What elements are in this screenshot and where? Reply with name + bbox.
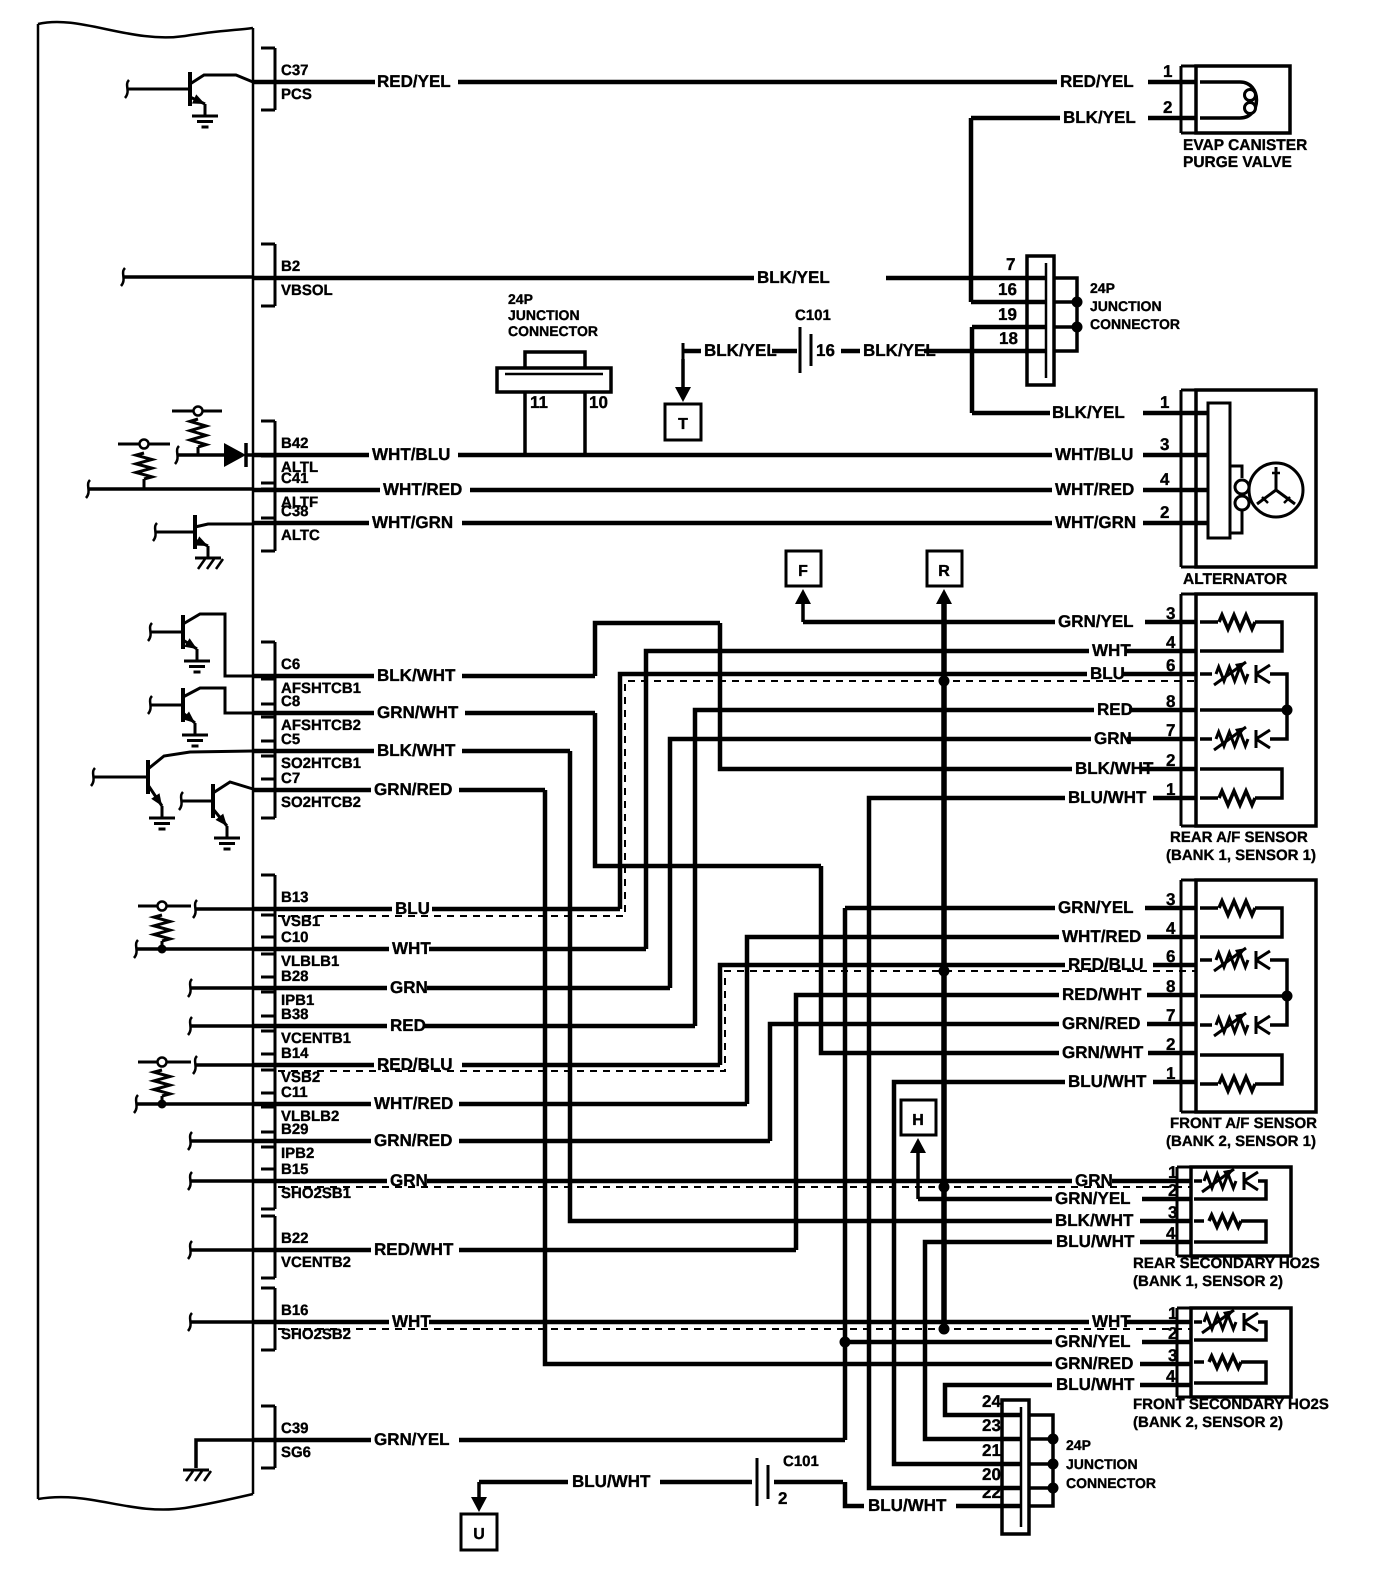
svg-text:CONNECTOR: CONNECTOR [1066,1475,1156,1491]
wire front A/F pin 3 GRN/YEL [845,906,1055,911]
svg-text:24P: 24P [508,291,533,307]
svg-text:3: 3 [1166,604,1175,623]
svg-text:4: 4 [1166,1367,1176,1386]
alternator body [1196,390,1316,567]
svg-text:WHT/GRN: WHT/GRN [1055,513,1136,532]
svg-text:C37: C37 [281,62,309,79]
transistor Q3 (AFSHTCB1 driver) [181,615,185,649]
svg-text:WHT: WHT [1092,641,1131,660]
svg-text:GRN: GRN [390,978,428,997]
ECM pin C39/SG6 bracket and labels [261,1405,275,1408]
wire net C39 GRN/YEL riser [253,1438,371,1443]
ECM pin C41/ALTF bracket and labels [261,455,275,458]
svg-text:U: U [473,1526,485,1543]
svg-text:(BANK 1, SENSOR 1): (BANK 1, SENSOR 1) [1166,847,1316,864]
svg-text:19: 19 [998,305,1017,324]
svg-text:BLU: BLU [1090,664,1125,683]
svg-text:GRN/YEL: GRN/YEL [374,1430,450,1449]
svg-text:GRN/RED: GRN/RED [374,780,452,799]
svg-text:SO2HTCB2: SO2HTCB2 [281,794,361,811]
rear A/F sensor (bank 1 sensor 1) [1180,594,1183,826]
svg-text:REAR SECONDARY HO2S: REAR SECONDARY HO2S [1133,1255,1320,1272]
wire net B16 WHT shielded to front secondary HO2S pin 1 [253,1320,389,1325]
resistor R1 with terminal (ALTL pull-up) [172,410,193,413]
svg-text:6: 6 [1166,656,1175,675]
ECM pin C37/PCS bracket and labels [261,47,275,50]
ECM body torn-paper outline [38,24,253,1499]
ECM pin B16/SHO2SB2 bracket and labels [261,1287,275,1290]
wire front secondary HO2S pin 2 GRN/YEL [840,1337,851,1348]
wire net C11 WHT/RED to front A/F pin 4 [253,1102,371,1107]
svg-text:RED: RED [390,1016,426,1035]
wire EVAP pin 2 BLK/YEL [971,116,1060,121]
connector C101 (pin 2) [756,1458,759,1506]
alternator stator symbol [1249,463,1303,517]
ground at SG6 [196,1440,253,1468]
svg-text:WHT: WHT [392,939,431,958]
wire net B13 BLU shielded to rear A/F pin 6 [253,907,392,912]
alternator field coil [1230,466,1242,478]
svg-text:CONNECTOR: CONNECTOR [1090,316,1180,332]
svg-text:FRONT A/F SENSOR: FRONT A/F SENSOR [1170,1115,1317,1132]
svg-text:VCENTB2: VCENTB2 [281,1254,351,1271]
svg-text:C5: C5 [281,731,300,748]
svg-text:2: 2 [778,1489,787,1508]
svg-text:8: 8 [1166,692,1175,711]
svg-text:C39: C39 [281,1420,309,1437]
wire C37 RED/YEL to EVAP pin 1 [253,80,375,85]
svg-text:BLK/YEL: BLK/YEL [1052,403,1125,422]
svg-text:1: 1 [1163,62,1172,81]
shield dashed for RED/BLU wire [278,971,1196,1071]
wire net B22 RED/WHT to front A/F pin 8 and F [253,1248,371,1253]
svg-text:20: 20 [982,1465,1001,1484]
shield dashed for GRN wire [278,1186,1191,1188]
transistor Q4 (AFSHTCB2 driver) [181,688,185,722]
front secondary HO2S (bank 2 sensor 2) [1176,1308,1179,1397]
wire net C10 WHT to rear A/F pin 4 [253,947,389,952]
svg-text:ALTC: ALTC [281,527,320,544]
wire net B15 GRN shielded to rear secondary HO2S pin 1 [253,1179,387,1184]
svg-text:4: 4 [1166,1224,1176,1243]
alternator connector bracket [1180,390,1183,567]
shield dashed for BLU wire [278,681,1196,916]
wire net C5 BLK/WHT to rear secondary HO2S pin 3 [253,749,374,754]
ECM pin C10/VLBLB1 bracket and labels [261,914,275,917]
svg-text:BLU/WHT: BLU/WHT [1068,788,1147,807]
wire net B14 RED/BLU shielded to front A/F pin 6 [253,1063,374,1068]
svg-text:C101: C101 [783,1453,819,1470]
EVAP canister purge valve body [1196,66,1290,133]
svg-text:PURGE VALVE: PURGE VALVE [1183,154,1292,171]
svg-text:RED/WHT: RED/WHT [374,1240,454,1259]
wire B22 lead [190,1248,253,1252]
svg-text:RED/WHT: RED/WHT [1062,985,1142,1004]
svg-text:C10: C10 [281,929,309,946]
svg-text:21: 21 [982,1441,1001,1460]
junction connector 24P (pins 11,10) body [497,368,611,392]
svg-text:GRN/YEL: GRN/YEL [1055,1332,1131,1351]
junction connector 24P bottom body [1002,1400,1029,1534]
svg-text:R: R [938,563,950,580]
svg-text:BLU/WHT: BLU/WHT [572,1472,651,1491]
wire B14 lead [195,1063,253,1067]
svg-text:(BANK 2, SENSOR 1): (BANK 2, SENSOR 1) [1166,1133,1316,1150]
svg-text:WHT/BLU: WHT/BLU [372,445,450,464]
wire rear A/F pin 3 GRN/YEL from F [803,620,1055,625]
F box reference with arrow [786,551,821,586]
svg-text:BLU/WHT: BLU/WHT [1068,1072,1147,1091]
svg-text:EVAP CANISTER: EVAP CANISTER [1183,137,1307,154]
svg-text:7: 7 [1006,255,1015,274]
svg-text:(BANK 1, SENSOR 2): (BANK 1, SENSOR 2) [1133,1273,1283,1290]
svg-text:GRN/RED: GRN/RED [1062,1014,1140,1033]
svg-text:RED/YEL: RED/YEL [1060,72,1134,91]
wire net B28 GRN to rear A/F pin 7 [253,986,387,991]
svg-text:24P: 24P [1090,280,1115,296]
resistor R2 with terminal (ALTF pull-up) [118,443,139,446]
svg-text:C38: C38 [281,503,309,520]
wire rear secondary HO2S pin 4 BLU/WHT to junction pin 23 [925,1242,1052,1439]
wire net C8 GRN/WHT to front A/F pin 2 [253,711,374,716]
svg-text:C11: C11 [281,1084,308,1101]
front A/F sensor (bank 2 sensor 1) [1180,880,1183,1112]
svg-text:10: 10 [589,393,608,412]
svg-text:2: 2 [1166,1035,1175,1054]
wire BLK/YEL through C101 to junction pin 18 [682,343,685,359]
svg-text:6: 6 [1166,947,1175,966]
svg-text:GRN: GRN [1094,729,1132,748]
svg-text:JUNCTION: JUNCTION [508,307,580,323]
svg-text:C101: C101 [795,307,831,324]
svg-text:3: 3 [1160,435,1169,454]
svg-text:1: 1 [1166,780,1175,799]
svg-text:4: 4 [1166,919,1176,938]
svg-text:4: 4 [1160,470,1170,489]
svg-text:BLU/WHT: BLU/WHT [868,1496,947,1515]
svg-text:WHT/RED: WHT/RED [374,1094,453,1113]
ECM pin B15/SHO2SB1 bracket and labels [261,1146,275,1149]
wire net B38 RED to rear A/F pin 8 [253,1024,387,1029]
ECM pin C38/ALTC bracket and labels [261,488,275,491]
svg-text:B42: B42 [281,435,309,452]
svg-text:BLK/YEL: BLK/YEL [863,341,936,360]
svg-text:RED: RED [1097,700,1133,719]
svg-text:C8: C8 [281,693,300,710]
svg-text:8: 8 [1166,977,1175,996]
ECM pin B42/ALTL bracket and labels [261,420,275,423]
wire rear A/F pin 1 BLU/WHT to junction pin 20 [869,798,1065,1488]
svg-text:VSB1: VSB1 [281,913,320,930]
svg-text:B16: B16 [281,1302,309,1319]
svg-text:B29: B29 [281,1121,309,1138]
alternator internal connector strip [1208,403,1230,538]
svg-text:BLK/YEL: BLK/YEL [704,341,777,360]
svg-text:C7: C7 [281,770,300,787]
svg-text:2: 2 [1160,503,1169,522]
svg-text:7: 7 [1166,721,1175,740]
svg-text:GRN/WHT: GRN/WHT [1062,1043,1144,1062]
svg-text:F: F [798,563,808,580]
svg-text:1: 1 [1160,393,1169,412]
wire B28 lead [190,986,253,990]
svg-text:PCS: PCS [281,86,312,103]
transistor Q2 (ALTC) [193,515,197,549]
wire EVAP BLK/YEL vertical to junction pin 16 [969,118,974,302]
wire C41 WHT/RED to alternator pin 4 [253,488,380,493]
svg-text:B28: B28 [281,968,309,985]
svg-text:WHT/RED: WHT/RED [383,480,462,499]
wire junction pin 19 BLK/YEL to alternator pin 1 [972,325,1027,330]
wire net C6 BLK/WHT to rear A/F pin 2 [253,674,374,679]
svg-text:FRONT SECONDARY HO2S: FRONT SECONDARY HO2S [1133,1396,1329,1413]
shield dashed for WHT wire [278,1328,1191,1330]
svg-text:B38: B38 [281,1006,309,1023]
ECM pin B14/VSB2 bracket and labels [261,1030,275,1033]
svg-text:RED/YEL: RED/YEL [377,72,451,91]
svg-text:JUNCTION: JUNCTION [1090,298,1162,314]
svg-text:23: 23 [982,1416,1001,1435]
svg-text:B15: B15 [281,1161,309,1178]
svg-text:B2: B2 [281,258,300,275]
wire C38 WHT/GRN to alternator pin 2 [253,521,369,526]
ECM pin B22/VCENTB2 bracket and labels [261,1215,275,1218]
svg-text:SG6: SG6 [281,1444,311,1461]
svg-text:16: 16 [998,280,1017,299]
svg-text:2: 2 [1163,98,1172,117]
ECM pin C6/AFSHTCB1 bracket and labels [261,641,275,644]
svg-text:1: 1 [1166,1064,1175,1083]
svg-text:4: 4 [1166,633,1176,652]
wire front secondary HO2S pin 4 BLU/WHT to junction pin 24 [945,1385,1052,1415]
svg-text:H: H [912,1112,924,1129]
svg-text:GRN: GRN [1075,1171,1113,1190]
svg-text:WHT/RED: WHT/RED [1062,927,1141,946]
ECM pin B13/VSB1 bracket and labels [261,874,275,877]
svg-text:WHT/BLU: WHT/BLU [1055,445,1133,464]
wire front A/F pin 1 BLU/WHT to junction pin 21 [894,1082,1065,1464]
resistor R4 with terminal (VSB2) [138,1061,191,1064]
wire B2 BLK/YEL to junction pin 7 [253,276,754,281]
svg-text:24P: 24P [1066,1437,1091,1453]
ECM pin C5/SO2HTCB1 bracket and labels [261,716,275,719]
svg-text:11: 11 [530,393,548,412]
svg-text:(BANK 2, SENSOR 2): (BANK 2, SENSOR 2) [1133,1414,1283,1431]
H box reference with arrow [901,1100,936,1135]
ECM pin C7/SO2HTCB2 bracket and labels [261,755,275,758]
wire B2 lead [123,275,253,279]
connector C101 (engine harness, pin 16) [799,327,802,373]
wire B38 lead [190,1024,253,1028]
svg-text:BLK/WHT: BLK/WHT [1075,759,1154,778]
svg-text:24: 24 [982,1392,1001,1411]
svg-text:JUNCTION: JUNCTION [1066,1456,1138,1472]
svg-text:WHT/RED: WHT/RED [1055,480,1134,499]
EVAP canister purge valve connector bracket [1180,66,1183,133]
svg-text:BLU/WHT: BLU/WHT [1056,1375,1135,1394]
wire C11 lead [136,1102,253,1106]
wire C41 lead [88,487,253,491]
ECM pin B2/VBSOL bracket and labels [261,243,275,246]
svg-text:T: T [678,416,688,433]
junction 24P top-right bus [1054,278,1077,351]
ECM pin C8/AFSHTCB2 bracket and labels [261,678,275,681]
ECM pin B29/IPB2 bracket and labels [261,1106,275,1109]
wire net B29 GRN/RED to front A/F pin 7 [253,1139,371,1144]
wire C10 lead [136,947,253,951]
svg-text:GRN/YEL: GRN/YEL [1055,1189,1131,1208]
svg-text:WHT/GRN: WHT/GRN [372,513,453,532]
wire B29 lead [190,1139,253,1143]
svg-text:BLK/WHT: BLK/WHT [1055,1211,1134,1230]
svg-text:GRN/YEL: GRN/YEL [1058,898,1134,917]
svg-text:C41: C41 [281,470,309,487]
svg-text:C6: C6 [281,656,300,673]
wire B15 lead [190,1179,253,1183]
svg-text:GRN/WHT: GRN/WHT [377,703,459,722]
wire BLU/WHT to U and through C101 pin 2 to junction pin 22 [479,1480,568,1485]
svg-text:REAR A/F SENSOR: REAR A/F SENSOR [1170,829,1308,846]
T box reference with arrow [681,359,685,388]
svg-text:CONNECTOR: CONNECTOR [508,323,598,339]
svg-text:B22: B22 [281,1230,309,1247]
svg-text:B13: B13 [281,889,309,906]
svg-text:2: 2 [1166,751,1175,770]
transistor Q5 (SO2HTCB1 driver) [146,760,150,794]
svg-text:BLU/WHT: BLU/WHT [1056,1232,1135,1251]
ECM pin B38/VCENTB1 bracket and labels [261,991,275,994]
svg-text:GRN/RED: GRN/RED [1055,1354,1133,1373]
svg-text:ALTERNATOR: ALTERNATOR [1183,571,1287,588]
transistor Q6 (SO2HTCB2 driver) [211,784,215,818]
wire rear secondary HO2S pin 2 GRN/YEL from H [918,1197,1052,1202]
junction connector 24P top-right body [1027,256,1054,385]
wire B13 lead [195,907,253,911]
svg-text:B14: B14 [281,1045,309,1062]
svg-text:GRN/YEL: GRN/YEL [1058,612,1134,631]
svg-text:VBSOL: VBSOL [281,282,333,299]
svg-text:BLK/WHT: BLK/WHT [377,666,456,685]
wire net C7 GRN/RED to front secondary HO2S pin 3 [253,788,371,793]
R box reference with arrow (shield drain) [927,551,962,586]
diode D1 (ALTL) [177,453,224,457]
resistor R3 with terminal (VSB1) [138,905,191,908]
junction 24P bottom bus [1029,1415,1053,1506]
U box reference with arrow [477,1482,481,1498]
svg-text:16: 16 [816,341,835,360]
ECM pin B28/IPB1 bracket and labels [261,953,275,956]
svg-text:18: 18 [999,329,1018,348]
svg-text:3: 3 [1166,890,1175,909]
svg-text:BLK/WHT: BLK/WHT [377,741,456,760]
svg-text:IPB2: IPB2 [281,1145,314,1162]
svg-text:7: 7 [1166,1006,1175,1025]
ECM pin C11/VLBLB2 bracket and labels [261,1069,275,1072]
wire B16 lead [190,1320,253,1324]
rear secondary HO2S (bank 1 sensor 2) [1176,1167,1179,1256]
svg-text:22: 22 [982,1483,1001,1502]
transistor Q1 (PCS driver) [188,72,192,106]
svg-text:BLK/YEL: BLK/YEL [1063,108,1136,127]
svg-text:BLK/YEL: BLK/YEL [757,268,830,287]
svg-text:GRN/RED: GRN/RED [374,1131,452,1150]
wire B42 WHT/BLU to alternator pin 3 [253,453,369,458]
